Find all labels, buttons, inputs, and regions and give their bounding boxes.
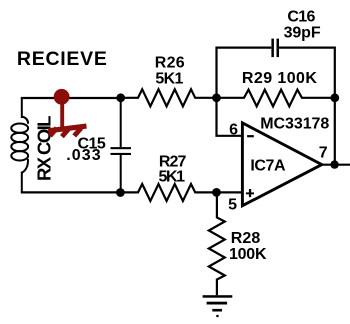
junction red node bbox=[54, 89, 70, 105]
node A junction bbox=[116, 93, 125, 102]
svg-text:.033: .033 bbox=[66, 147, 101, 164]
bottom rail wire bbox=[21, 191, 121, 193]
wire left vertical rail bbox=[21, 98, 23, 118]
svg-text:39pF: 39pF bbox=[284, 24, 321, 41]
svg-text:RECIEVE: RECIEVE bbox=[17, 48, 107, 70]
svg-text:R29 100K: R29 100K bbox=[242, 70, 317, 87]
svg-text:5: 5 bbox=[228, 197, 237, 214]
node C junction bbox=[330, 93, 339, 102]
svg-text:100K: 100K bbox=[229, 246, 267, 263]
wire top rail left bbox=[21, 97, 121, 99]
chassis ground (red) bar bbox=[48, 126, 86, 131]
svg-text:R28: R28 bbox=[231, 230, 261, 247]
feedback loop C16 wires bbox=[217, 48, 335, 98]
svg-text:RX COIL: RX COIL bbox=[34, 116, 55, 182]
inductor RX COIL bbox=[11, 117, 28, 173]
chassis ground (red) stem bbox=[60, 98, 64, 129]
resistor R26 bbox=[121, 89, 217, 106]
svg-text:R26: R26 bbox=[155, 55, 185, 72]
op-amp plus sign bbox=[246, 192, 254, 194]
svg-text:MC33178: MC33178 bbox=[260, 116, 329, 133]
resistor R27 bbox=[121, 184, 243, 201]
resistor R28 bbox=[209, 192, 225, 295]
chassis ground (red) hatches bbox=[50, 128, 81, 137]
node E junction bbox=[212, 188, 221, 197]
op-amp IC7A bbox=[242, 123, 321, 206]
ground symbol bbox=[203, 295, 233, 298]
svg-text:7: 7 bbox=[319, 144, 328, 161]
node B junction bbox=[212, 93, 221, 102]
capacitor C16 bbox=[271, 39, 274, 58]
svg-text:5K1: 5K1 bbox=[155, 70, 183, 87]
svg-text:IC7A: IC7A bbox=[250, 158, 286, 175]
wire pin6 bbox=[217, 98, 244, 136]
wire output vertical bbox=[334, 98, 336, 165]
wire left vertical rail lower bbox=[21, 172, 23, 193]
op-amp minus sign bbox=[247, 135, 254, 137]
svg-text:6: 6 bbox=[229, 121, 238, 138]
svg-text:C16: C16 bbox=[287, 9, 315, 26]
wire output bbox=[321, 164, 350, 166]
resistor R29 bbox=[217, 90, 335, 107]
node D junction bbox=[116, 188, 125, 197]
node F junction bbox=[330, 160, 338, 168]
svg-text:5K1: 5K1 bbox=[159, 168, 186, 185]
capacitor C15 bbox=[120, 98, 122, 147]
